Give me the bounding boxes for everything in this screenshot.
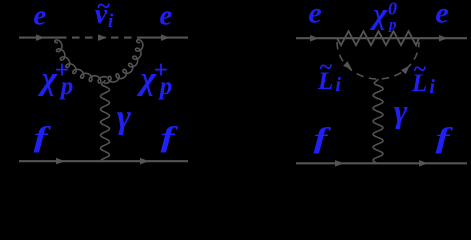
chargino coil propagator left xyxy=(55,40,107,83)
arrow on f line left xyxy=(56,158,65,165)
arrow on slepton arc right side xyxy=(401,66,409,75)
svg-text:e: e xyxy=(308,0,321,30)
label f incoming (left diagram) xyxy=(34,122,52,153)
arrow on f line left (right diagram) xyxy=(335,160,344,167)
label neutralino chi_p^0 xyxy=(369,0,397,33)
label photon gamma (right diagram) xyxy=(394,94,408,130)
svg-text:e: e xyxy=(159,0,172,32)
label chargino chi_p^+ left xyxy=(38,55,74,100)
fermion line f (right diagram) xyxy=(296,162,467,164)
svg-text:p: p xyxy=(158,73,173,100)
label e outgoing (left diagram) xyxy=(159,0,172,32)
arrow on incoming electron (right) xyxy=(310,35,319,42)
arrow on slepton arc left side xyxy=(343,61,352,69)
svg-text:γ: γ xyxy=(394,94,408,130)
label e outgoing (right diagram) xyxy=(435,0,448,30)
label f incoming (right diagram) xyxy=(314,124,332,155)
electron line (right diagram) xyxy=(296,37,467,39)
label e incoming (right diagram) xyxy=(308,0,321,30)
svg-text:p: p xyxy=(387,17,397,33)
label chargino chi_p^+ right xyxy=(137,55,173,100)
sneutrino dashed propagator nu_i xyxy=(59,37,139,39)
chargino coil propagator right xyxy=(104,40,143,84)
fermion line f (left diagram) xyxy=(19,160,188,162)
neutralino zigzag propagator chi_p^0 xyxy=(337,31,419,45)
label f outgoing (left diagram) xyxy=(161,122,179,153)
label e incoming (left diagram) xyxy=(33,0,46,32)
label slepton L tilde _i right xyxy=(411,57,435,99)
photon propagator (right diagram) xyxy=(373,79,383,163)
arrow on f line right (right diagram) xyxy=(419,160,428,167)
svg-text:~: ~ xyxy=(413,57,426,83)
label photon gamma (left diagram) xyxy=(117,99,132,136)
svg-text:i: i xyxy=(429,76,435,98)
svg-text:e: e xyxy=(435,0,448,30)
svg-text:γ: γ xyxy=(117,99,132,136)
svg-text:e: e xyxy=(33,0,46,32)
arrow on outgoing electron xyxy=(161,34,170,41)
svg-text:0: 0 xyxy=(388,0,397,19)
label f outgoing (right diagram) xyxy=(436,124,454,155)
label sneutrino nu tilde _i xyxy=(95,0,114,32)
label slepton L tilde _i left xyxy=(317,55,341,97)
photon propagator (left diagram) xyxy=(101,80,110,161)
svg-text:i: i xyxy=(335,74,341,96)
arrow on outgoing electron (right) xyxy=(439,35,448,42)
svg-text:i: i xyxy=(108,11,114,32)
electron line incoming (left diagram) xyxy=(19,37,59,39)
arrow on sneutrino propagator xyxy=(98,34,107,41)
arrow on incoming electron xyxy=(36,34,45,41)
slepton dashed loop arc L_i xyxy=(337,42,419,79)
arrow on f line right xyxy=(140,158,149,165)
svg-text:~: ~ xyxy=(319,55,332,81)
svg-text:p: p xyxy=(59,73,74,100)
electron line outgoing (left diagram) xyxy=(139,37,188,39)
